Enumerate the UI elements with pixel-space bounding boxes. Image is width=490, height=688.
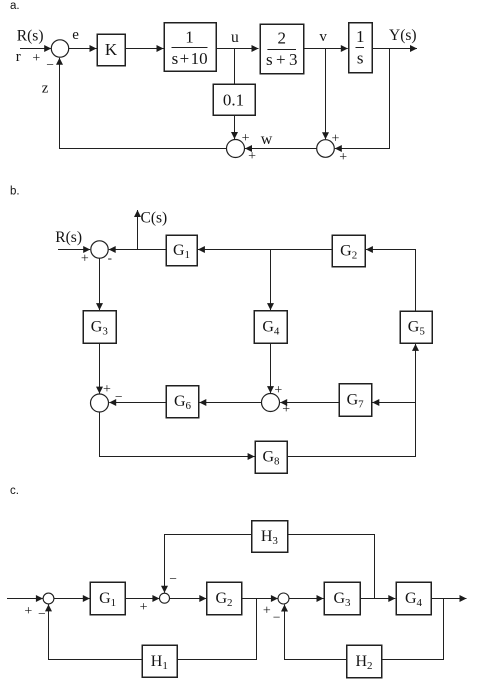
svg-text:G6: G6 (174, 393, 192, 412)
svg-text:+: + (24, 604, 32, 619)
svg-text:G1: G1 (173, 242, 190, 261)
svg-text:G1: G1 (99, 590, 116, 609)
svg-text:1: 1 (356, 27, 365, 46)
svg-text:R(s): R(s) (17, 27, 44, 44)
svg-text:+: + (248, 149, 256, 164)
svg-text:G5: G5 (408, 319, 426, 338)
svg-text:+: + (332, 132, 340, 147)
svg-text:G4: G4 (262, 319, 280, 338)
svg-text:e: e (72, 27, 79, 43)
svg-text:H3: H3 (261, 528, 279, 547)
svg-text:+: + (263, 603, 271, 618)
svg-text:a.: a. (10, 0, 20, 12)
svg-text:s + 3: s + 3 (266, 50, 298, 69)
svg-text:+: + (81, 252, 89, 267)
svg-text:v: v (319, 29, 327, 45)
svg-text:R(s): R(s) (55, 229, 82, 246)
svg-text:s + 10: s + 10 (172, 49, 208, 68)
svg-text:-: - (108, 250, 112, 265)
svg-text:−: − (115, 389, 123, 404)
svg-text:G2: G2 (340, 243, 357, 262)
svg-text:z: z (42, 80, 49, 96)
svg-text:+: + (339, 150, 347, 165)
svg-text:H2: H2 (355, 653, 372, 672)
svg-text:C(s): C(s) (141, 210, 168, 227)
svg-text:Y(s): Y(s) (389, 27, 417, 44)
svg-text:−: − (169, 571, 177, 586)
svg-text:H1: H1 (151, 653, 168, 672)
svg-text:b.: b. (10, 186, 20, 198)
svg-text:+: + (282, 402, 290, 417)
svg-text:G2: G2 (215, 590, 232, 609)
svg-text:+: + (140, 600, 148, 615)
svg-text:G4: G4 (405, 590, 423, 609)
svg-text:u: u (231, 29, 239, 46)
svg-text:+: + (242, 131, 250, 146)
svg-text:s: s (357, 49, 364, 68)
svg-text:G8: G8 (262, 449, 280, 468)
svg-text:c.: c. (10, 485, 19, 497)
svg-text:0.1: 0.1 (223, 90, 244, 109)
svg-text:G3: G3 (333, 590, 351, 609)
svg-text:w: w (261, 131, 273, 148)
svg-text:r: r (16, 49, 21, 65)
svg-text:+: + (274, 383, 282, 398)
svg-text:+: + (103, 382, 111, 397)
svg-text:−: − (38, 606, 46, 621)
svg-text:K: K (105, 40, 118, 59)
svg-text:G7: G7 (347, 392, 365, 411)
svg-text:−: − (273, 610, 281, 625)
svg-text:G3: G3 (91, 319, 109, 338)
svg-text:−: − (46, 57, 54, 72)
svg-text:+: + (32, 51, 40, 66)
svg-text:2: 2 (277, 28, 286, 47)
svg-text:1: 1 (185, 28, 194, 47)
